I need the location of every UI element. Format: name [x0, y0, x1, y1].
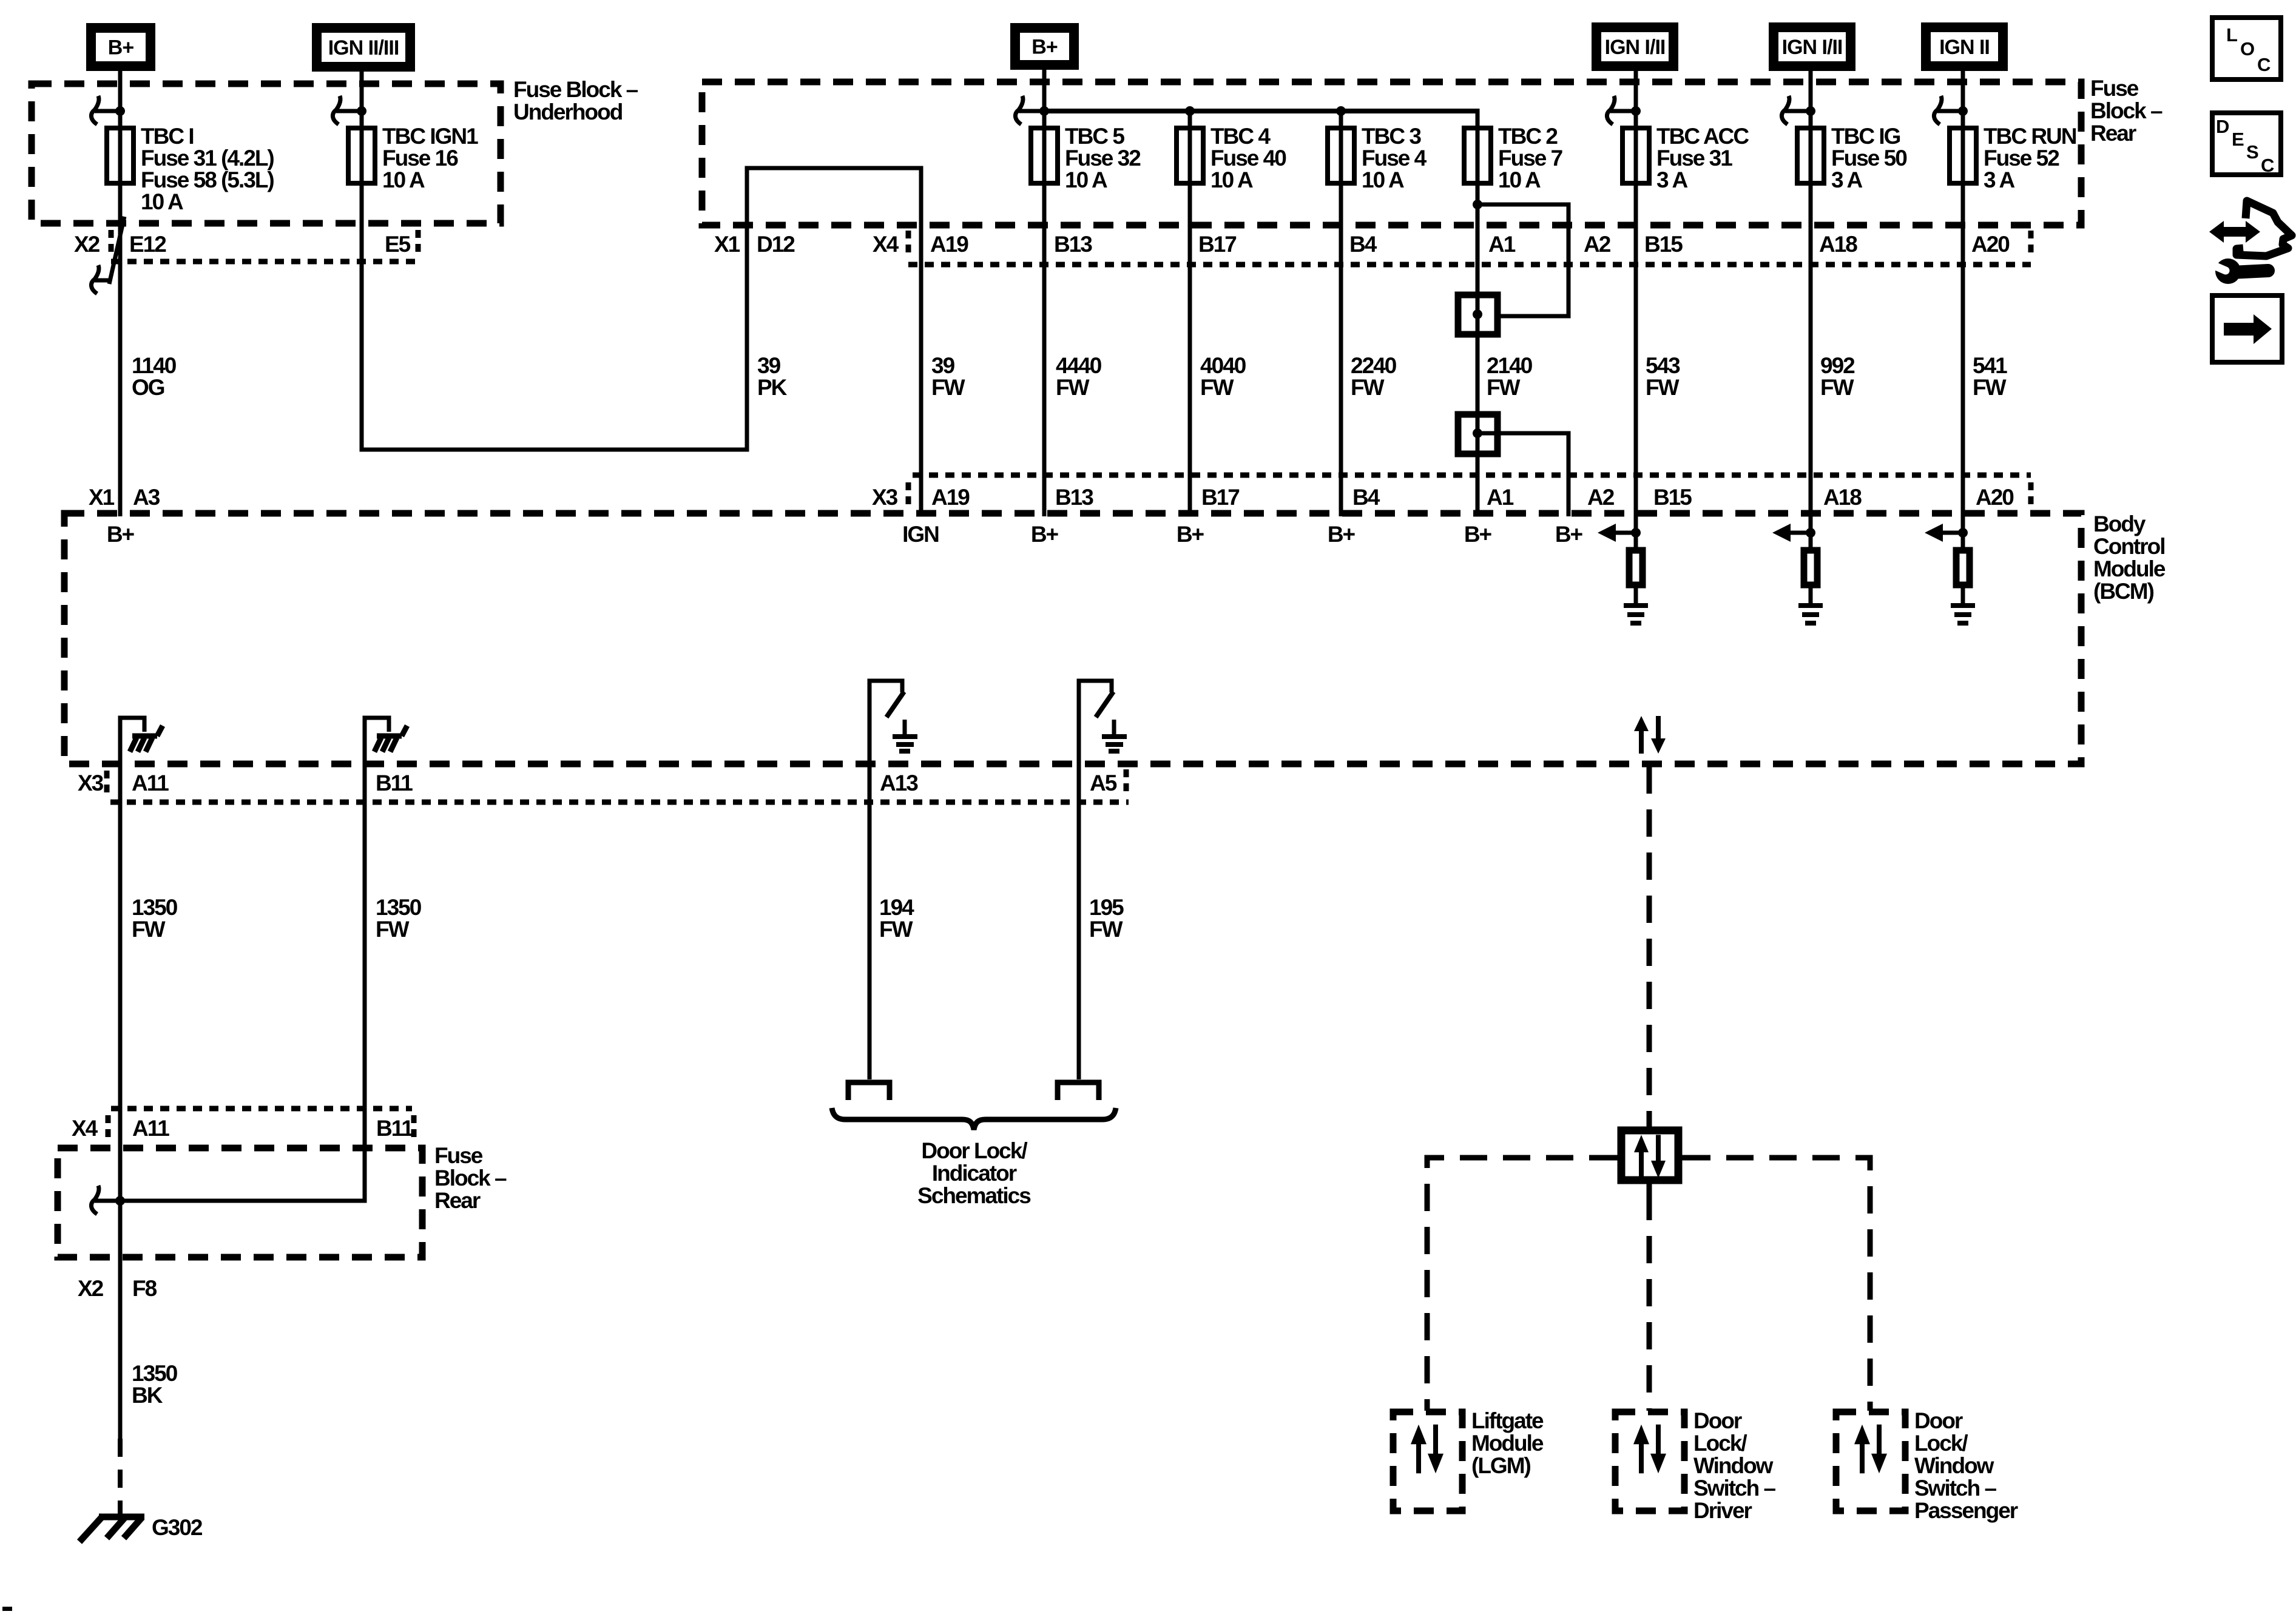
signal arrow left at A20	[1925, 524, 1963, 542]
connector dotted line under E12/E5	[111, 259, 417, 265]
pigtail terminal circuit 195	[1058, 1082, 1099, 1100]
dashed wire to G302	[118, 1439, 123, 1514]
power symbol IGN I/II power label box 1	[1596, 27, 1673, 66]
svg-text:PK: PK	[757, 375, 788, 400]
svg-text:Door: Door	[1693, 1408, 1742, 1433]
svg-text:B17: B17	[1201, 485, 1239, 510]
connector tick X3 (top)	[906, 482, 911, 509]
connector dotted line under BCM bottom pins	[110, 800, 1129, 805]
switch to ground inside BCM at A13	[869, 681, 917, 751]
svg-text:FW: FW	[1646, 375, 1680, 400]
svg-text:A1: A1	[1488, 232, 1516, 257]
svg-text:FW: FW	[1056, 375, 1090, 400]
connector tick X4	[906, 231, 911, 257]
chassis ground G302	[79, 1516, 144, 1542]
svg-text:Window: Window	[1914, 1453, 1994, 1478]
connector clip + junction at IGN I/II col J	[1607, 96, 1641, 124]
schematic navigation icon (arrows and wrench)	[2209, 201, 2292, 284]
label door lock/window switch - driver	[1693, 1408, 1776, 1523]
pigtail terminal circuit 194	[848, 1082, 890, 1100]
connector tick after E5	[416, 230, 421, 255]
svg-text:(BCM): (BCM)	[2093, 579, 2154, 604]
svg-text:A1: A1	[1487, 485, 1514, 510]
svg-text:2140: 2140	[1487, 353, 1533, 378]
svg-text:B+: B+	[1032, 36, 1058, 59]
wire resistor to ground at A20	[1961, 588, 1965, 604]
svg-text:Rear: Rear	[434, 1188, 481, 1213]
svg-text:1350: 1350	[376, 895, 422, 920]
svg-text:992: 992	[1820, 353, 1855, 378]
svg-text:Fuse 58 (5.3L): Fuse 58 (5.3L)	[141, 167, 274, 192]
svg-text:A13: A13	[880, 771, 918, 795]
label Fuse Block - Rear (top right)	[2090, 76, 2163, 146]
svg-text:Block –: Block –	[434, 1166, 507, 1190]
svg-text:FW: FW	[132, 917, 166, 942]
fuse TBC IGN1	[348, 124, 478, 192]
fuse TBC RUN	[1950, 124, 2076, 192]
wire B11 down (1350 FW)	[363, 725, 367, 1203]
svg-text:FW: FW	[376, 917, 410, 942]
svg-text:L: L	[2226, 24, 2238, 46]
svg-text:E5: E5	[385, 232, 411, 257]
module box liftgate module (LGM)	[1393, 1412, 1462, 1511]
wire label 39 PK	[757, 353, 788, 400]
wire label 39 FW	[931, 353, 965, 400]
svg-text:E12: E12	[129, 232, 166, 257]
svg-text:X3: X3	[78, 771, 104, 795]
svg-text:1350: 1350	[132, 895, 178, 920]
chassis ground hook inside BCM at A11	[120, 718, 163, 752]
wire A11 down (1350 FW)	[118, 725, 123, 1439]
connector tick after A20 (BCM)	[2028, 482, 2034, 509]
svg-text:1350: 1350	[132, 1361, 178, 1386]
wire 39 PK vertical	[745, 166, 749, 450]
connector clip + junction at B+ col E	[1015, 96, 1049, 124]
svg-text:195: 195	[1089, 895, 1124, 920]
wire label 4440 FW	[1056, 353, 1102, 400]
svg-text:A20: A20	[1976, 485, 2014, 510]
LOC legend box	[2212, 18, 2281, 79]
svg-text:B11: B11	[376, 1116, 413, 1141]
svg-text:TBC RUN: TBC RUN	[1984, 124, 2076, 149]
svg-text:A2: A2	[1587, 485, 1615, 510]
wire IGN II feed col L (A20, 541 FW)	[1961, 68, 1965, 547]
power symbol IGN II power label box	[1926, 27, 2003, 66]
fuse TBC I	[107, 124, 274, 214]
svg-text:F8: F8	[132, 1276, 157, 1301]
svg-text:FW: FW	[1820, 375, 1854, 400]
svg-text:Fuse 16: Fuse 16	[382, 146, 458, 170]
svg-text:Door: Door	[1914, 1408, 1963, 1433]
svg-text:Control: Control	[2093, 534, 2165, 559]
svg-text:X4: X4	[873, 232, 899, 257]
svg-text:Switch –: Switch –	[1693, 1476, 1776, 1501]
svg-text:Block –: Block –	[2090, 98, 2163, 123]
svg-text:Module: Module	[1471, 1431, 1544, 1456]
svg-text:FW: FW	[1351, 375, 1385, 400]
svg-text:Schematics: Schematics	[917, 1183, 1031, 1208]
svg-text:10 A: 10 A	[141, 189, 183, 214]
svg-text:39: 39	[757, 353, 781, 378]
svg-text:Body: Body	[2093, 511, 2146, 536]
svg-text:B17: B17	[1198, 232, 1236, 257]
svg-text:Fuse 31 (4.2L): Fuse 31 (4.2L)	[141, 146, 274, 170]
svg-text:A20: A20	[1971, 232, 2010, 257]
splice box S1 on circuit 2140	[1458, 295, 1497, 334]
connector clip at X2/E12	[91, 265, 99, 294]
svg-text:TBC IG: TBC IG	[1831, 124, 1900, 149]
connector slash at X2/E12	[109, 217, 124, 284]
wire IGN I/II feed col K (A18, 992 FW)	[1809, 68, 1813, 547]
svg-text:B+: B+	[1464, 522, 1492, 547]
svg-text:X1: X1	[714, 232, 740, 257]
svg-text:Driver: Driver	[1693, 1498, 1752, 1523]
svg-text:FW: FW	[879, 917, 913, 942]
DESC legend box	[2212, 113, 2281, 176]
svg-text:Window: Window	[1693, 1453, 1774, 1478]
svg-text:X2: X2	[78, 1276, 104, 1301]
ground symbol at A18	[1798, 606, 1823, 623]
svg-text:Fuse 40: Fuse 40	[1210, 146, 1286, 170]
forward arrow legend box	[2212, 295, 2282, 362]
svg-text:TBC 5: TBC 5	[1065, 124, 1124, 149]
svg-text:Lock/: Lock/	[1914, 1431, 1968, 1456]
connector clip + junction at IGN II col L	[1934, 96, 1968, 124]
svg-text:A11: A11	[132, 771, 169, 795]
junction dot at B15	[1631, 528, 1641, 538]
svg-text:3 A: 3 A	[1656, 167, 1687, 192]
wire label 1140 OG	[132, 353, 177, 400]
connector clip + junction at B+ col A	[91, 96, 125, 124]
svg-text:Module: Module	[2093, 556, 2166, 581]
fuse block - underhood dashed box	[32, 84, 501, 223]
svg-text:B4: B4	[1352, 485, 1380, 510]
brace door lock/indicator schematics	[832, 1108, 1116, 1130]
svg-text:X4: X4	[72, 1116, 98, 1141]
svg-text:B15: B15	[1644, 232, 1683, 257]
label liftgate module (LGM)	[1471, 1408, 1544, 1478]
label Fuse Block - Rear (bottom)	[434, 1143, 507, 1213]
svg-text:IGN: IGN	[902, 522, 939, 547]
svg-text:Fuse 7: Fuse 7	[1498, 146, 1562, 170]
svg-text:G302: G302	[152, 1515, 203, 1540]
svg-text:B15: B15	[1653, 485, 1692, 510]
svg-text:Fuse 4: Fuse 4	[1362, 146, 1427, 170]
data junction box with arrows	[1607, 1118, 1692, 1194]
wire label 541 FW	[1973, 353, 2007, 400]
svg-text:2240: 2240	[1351, 353, 1397, 378]
svg-text:FW: FW	[931, 375, 965, 400]
svg-text:Underhood: Underhood	[513, 100, 623, 124]
wire label 992 FW	[1820, 353, 1855, 400]
connector tick after A20	[2028, 231, 2034, 257]
ground symbol at B15	[1624, 606, 1648, 623]
svg-text:B+: B+	[107, 522, 135, 547]
svg-text:X1: X1	[89, 485, 115, 510]
wire TBC4 drop (B17)	[1188, 111, 1192, 516]
svg-text:FW: FW	[1200, 375, 1234, 400]
page corner mark	[2, 1607, 12, 1611]
wire resistor to ground at A18	[1809, 588, 1813, 604]
svg-text:Fuse 50: Fuse 50	[1831, 146, 1907, 170]
svg-text:39: 39	[931, 353, 955, 378]
wire A2 splice loop upper	[1477, 204, 1568, 316]
svg-text:10 A: 10 A	[1210, 167, 1253, 192]
wire label 195 FW	[1089, 895, 1124, 942]
wire label 4040 FW	[1200, 353, 1246, 400]
svg-text:Indicator: Indicator	[932, 1161, 1017, 1186]
svg-text:IGN I/II: IGN I/II	[1605, 36, 1666, 59]
svg-text:IGN II/III: IGN II/III	[328, 36, 399, 59]
junction dot at A18	[1806, 528, 1815, 538]
svg-text:Fuse 32: Fuse 32	[1065, 146, 1141, 170]
svg-text:TBC ACC: TBC ACC	[1656, 124, 1749, 149]
data direction arrows inside BCM	[1634, 716, 1666, 754]
connector tick X2	[109, 230, 114, 255]
svg-text:(LGM): (LGM)	[1471, 1453, 1531, 1478]
svg-text:A11: A11	[132, 1116, 169, 1141]
svg-text:543: 543	[1646, 353, 1680, 378]
junction dot bus/TBC3	[1336, 106, 1346, 116]
connector dotted line above X4/A11/B11	[111, 1106, 412, 1112]
svg-text:A19: A19	[931, 485, 970, 510]
svg-text:1140: 1140	[132, 353, 177, 378]
splice box S2 on circuit 2140	[1458, 414, 1497, 454]
switch to ground inside BCM at A5	[1079, 681, 1127, 751]
svg-text:TBC 4: TBC 4	[1210, 124, 1271, 149]
junction dot at A20	[1958, 528, 1968, 538]
junction dot bus/TBC4	[1185, 106, 1195, 116]
svg-text:S: S	[2246, 141, 2259, 163]
wire label 1350 FW	[376, 895, 422, 942]
junction dot rear fuse block	[115, 1196, 125, 1206]
wire horizontal E5 to D12 col	[360, 448, 749, 452]
dashed wire BCM to junction box	[1647, 766, 1652, 1126]
label door lock/window switch - passenger	[1914, 1408, 2018, 1523]
svg-text:B13: B13	[1055, 485, 1093, 510]
wire label 543 FW	[1646, 353, 1680, 400]
signal arrow left at A18	[1772, 524, 1811, 542]
svg-text:Passenger: Passenger	[1914, 1498, 2018, 1523]
connector tick X3 bottom	[104, 771, 110, 797]
svg-text:O: O	[2240, 38, 2255, 59]
wire B+ feed col A (1140 OG)	[118, 66, 123, 516]
svg-text:A3: A3	[133, 485, 160, 510]
label Door Lock/Indicator Schematics	[917, 1138, 1031, 1208]
svg-text:OG: OG	[132, 375, 164, 400]
fuse block - rear dashed box (top)	[702, 82, 2081, 225]
svg-text:10 A: 10 A	[1362, 167, 1404, 192]
wire label 2240 FW	[1351, 353, 1397, 400]
svg-text:B+: B+	[1031, 522, 1059, 547]
svg-text:FW: FW	[1487, 375, 1521, 400]
svg-text:TBC 3: TBC 3	[1362, 124, 1421, 149]
svg-text:Fuse Block –: Fuse Block –	[513, 77, 638, 102]
dashed wire junction to passenger switch	[1683, 1158, 1870, 1411]
power symbol B+ power label box 2	[1015, 28, 1074, 65]
fuse TBC 5	[1031, 124, 1141, 192]
fuse TBC IG	[1797, 124, 1907, 192]
svg-text:FW: FW	[1089, 917, 1123, 942]
svg-text:FW: FW	[1973, 375, 2007, 400]
dashed wire junction to driver switch	[1647, 1193, 1652, 1411]
power symbol IGN I/II power label box 2	[1774, 27, 1851, 66]
svg-text:C: C	[2261, 155, 2274, 176]
connector tick after A5	[1124, 769, 1129, 796]
label Fuse Block - Underhood	[513, 77, 638, 124]
svg-text:A5: A5	[1090, 771, 1117, 795]
svg-text:Door Lock/: Door Lock/	[921, 1138, 1027, 1163]
svg-text:D12: D12	[757, 232, 795, 257]
svg-text:4440: 4440	[1056, 353, 1102, 378]
svg-text:B+: B+	[108, 36, 134, 59]
svg-text:3 A: 3 A	[1984, 167, 2014, 192]
fuse block - rear dashed box (bottom left)	[58, 1148, 422, 1257]
svg-text:B+: B+	[1177, 522, 1204, 547]
power symbol B+ power label box 1	[91, 28, 150, 66]
svg-text:B11: B11	[376, 771, 413, 795]
junction dot TBC2/A2 branch top	[1473, 200, 1482, 209]
svg-text:E: E	[2232, 129, 2244, 150]
chassis ground hook inside BCM at B11	[365, 718, 407, 752]
svg-text:B+: B+	[1555, 522, 1583, 547]
dashed wire junction to LGM	[1427, 1158, 1616, 1411]
svg-text:IGN I/II: IGN I/II	[1782, 36, 1843, 59]
connector dotted line under rear box pins	[908, 262, 2031, 268]
svg-text:Liftgate: Liftgate	[1471, 1408, 1544, 1433]
svg-text:D: D	[2216, 116, 2229, 137]
wire IGN II/III feed col B	[360, 67, 364, 450]
connector clip + junction at IGN I/II col K	[1781, 96, 1815, 124]
connector tick X4 bottom-left	[106, 1115, 111, 1142]
wire A13 down from switch	[868, 701, 872, 1079]
svg-text:BK: BK	[132, 1383, 163, 1408]
svg-text:10 A: 10 A	[382, 167, 425, 192]
svg-text:A2: A2	[1584, 232, 1611, 257]
svg-text:Fuse 52: Fuse 52	[1984, 146, 2059, 170]
power symbol IGN II/III power label box	[317, 28, 410, 67]
svg-text:4040: 4040	[1200, 353, 1246, 378]
svg-text:3 A: 3 A	[1831, 167, 1862, 192]
wire B+ feed col E (B13)	[1042, 69, 1047, 516]
svg-text:TBC IGN1: TBC IGN1	[382, 124, 478, 149]
wire resistor to ground at B15	[1634, 588, 1638, 604]
svg-text:X3: X3	[872, 485, 898, 510]
ground symbol at A20	[1951, 606, 1975, 623]
wire label 1350 FW	[132, 895, 178, 942]
svg-text:Switch –: Switch –	[1914, 1476, 1997, 1501]
svg-text:B4: B4	[1349, 232, 1377, 257]
svg-text:Fuse 31: Fuse 31	[1656, 146, 1732, 170]
wire B11 to A11 splice in rear fuse block	[120, 1199, 367, 1203]
fuse TBC 2	[1464, 124, 1562, 192]
junction dot in splice box S1	[1473, 309, 1482, 319]
svg-text:10 A: 10 A	[1498, 167, 1541, 192]
connector dotted line above BCM pins (X3)	[913, 473, 2031, 478]
svg-text:Lock/: Lock/	[1693, 1431, 1747, 1456]
wire TBC2 drop (A1, 2140 FW)	[1476, 111, 1480, 516]
svg-text:Rear: Rear	[2090, 121, 2136, 146]
svg-text:Fuse: Fuse	[434, 1143, 483, 1168]
module box door lock/window switch - driver	[1615, 1412, 1684, 1511]
label Body Control Module (BCM)	[2093, 511, 2166, 604]
resistor at A18	[1804, 550, 1817, 585]
wire label 194 FW	[879, 895, 914, 942]
signal arrow left at B15	[1598, 524, 1636, 542]
body control module (BCM) dashed box	[64, 513, 2081, 764]
svg-text:TBC 2: TBC 2	[1498, 124, 1558, 149]
svg-text:541: 541	[1973, 353, 2007, 378]
wire IGN I/II feed col J (B15, 543 FW)	[1634, 68, 1638, 547]
svg-text:Fuse: Fuse	[2090, 76, 2139, 101]
resistor at A20	[1956, 550, 1970, 585]
connector clip at rear fuse block junction	[91, 1186, 116, 1214]
junction dot in splice box S2	[1473, 428, 1482, 438]
svg-text:C: C	[2257, 54, 2271, 75]
svg-text:A18: A18	[1819, 232, 1857, 257]
fuse TBC 3	[1328, 124, 1427, 192]
wire TBC3 drop (B4)	[1339, 111, 1343, 516]
svg-text:X2: X2	[74, 232, 100, 257]
wire A5 down from switch	[1077, 701, 1081, 1079]
connector clip + junction at IGN II/III col B	[333, 96, 366, 124]
svg-text:B+: B+	[1328, 522, 1356, 547]
module box door lock/window switch - passenger	[1836, 1412, 1905, 1511]
svg-text:TBC I: TBC I	[141, 124, 194, 149]
svg-text:10 A: 10 A	[1065, 167, 1107, 192]
svg-text:IGN II: IGN II	[1939, 36, 1990, 59]
fuse TBC ACC	[1622, 124, 1749, 192]
wire B+ bus TBC5 to TBC2	[1044, 109, 1480, 113]
svg-text:B13: B13	[1054, 232, 1092, 257]
wire 39 FW vertical (A19)	[919, 168, 923, 516]
wire label 1350 BK	[132, 1361, 178, 1408]
fuse TBC 4	[1177, 124, 1286, 192]
wire A2 branch lower into BCM	[1477, 433, 1568, 516]
wire horizontal D12 to A19 col	[745, 166, 923, 170]
svg-text:194: 194	[879, 895, 914, 920]
resistor at B15	[1629, 550, 1643, 585]
svg-text:A18: A18	[1823, 485, 1862, 510]
wire label 2140 FW	[1487, 353, 1533, 400]
svg-text:A19: A19	[930, 232, 968, 257]
connector tick after B11 bottom	[411, 1115, 417, 1142]
